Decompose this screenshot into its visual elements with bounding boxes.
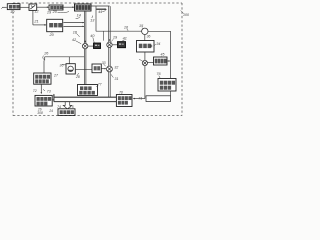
wire 20 lower out [63,25,84,27]
leader 100 [181,11,184,14]
pipe below valve 42 [83,49,85,85]
text in block 27 row1 [35,75,38,79]
block 12 [29,4,37,10]
block 19 [49,5,63,10]
right riser down to block 76 [170,31,172,78]
block 10 [7,4,20,10]
text in block 35 [139,44,143,48]
wire into block 27 [43,61,45,74]
wire valve to actuator 40 [88,45,94,47]
sense riser [95,6,97,31]
text in block 77 row2 [79,91,82,95]
symbol in block 12 [30,5,35,9]
actuator 40 (dark) [94,43,101,49]
arrow mark 44 [96,8,105,10]
block 76 [158,79,176,92]
sense line horizontal [96,30,142,32]
text in block 76 row1 [160,81,163,85]
text in block 20 [49,23,53,27]
pump box 36 [66,64,75,74]
valve circle-X under 35 [142,60,147,65]
svg-text:41: 41 [123,36,127,40]
svg-text:71: 71 [138,96,142,100]
valve 32 circle-X [107,66,113,72]
sense line to right riser [148,30,171,32]
pipe 13 vertical double line [83,11,85,44]
empty box 71 [146,96,171,102]
svg-text:36: 36 [147,34,151,38]
block 20 [47,19,63,31]
wire 12 to 19 [37,6,49,8]
block 14 (dense dark text) [75,4,92,11]
svg-text:36: 36 [60,63,64,67]
wire 36 to 33 [75,68,92,70]
bottom bus double line [54,96,117,98]
svg-text:34: 34 [156,42,160,46]
flow arrow pipe 16 [109,39,111,41]
wire valve to block 45 [148,61,154,63]
block 35 [137,41,155,53]
stub sensor to block 35 [144,35,146,41]
svg-text:308: 308 [37,111,43,115]
corner down [44,57,46,61]
wide arrow into block 75 [63,102,71,109]
text in block 10 [9,5,12,9]
text in block 76 row2 [160,86,163,90]
wire 35 down [144,52,146,60]
svg-text:20: 20 [52,10,58,14]
wire down to pump 36 [68,57,70,64]
dashed system boundary 100 [13,2,182,4]
wire valve down [144,66,146,99]
box 33 [92,64,101,73]
wire 33 to valve 32 [101,68,106,70]
text in block 73 row2 [37,102,40,106]
wire 76 down [170,91,172,96]
svg-text:20: 20 [49,33,55,37]
svg-text:31: 31 [115,77,119,81]
wire 45 to riser [167,60,170,62]
svg-text:28: 28 [75,75,80,79]
marks in box 33 [94,66,97,70]
svg-text:44: 44 [98,10,102,14]
svg-text:21: 21 [33,20,38,24]
svg-text:45: 45 [161,52,165,56]
wire 73 to bus [52,99,54,101]
svg-text:73: 73 [47,89,51,93]
dense text in block 14 [76,5,79,10]
branch down to valve 19 [102,31,104,40]
block 27 [34,73,51,84]
pipe below valve 32 [108,72,110,97]
bus left end stub [53,94,55,101]
block 77 [78,85,98,96]
text in block 19 [50,6,53,9]
pipe from block 14 right [91,5,110,7]
text in block 27 row2 [35,79,38,83]
pipe between valves [108,48,110,67]
wire input to box 10 [2,6,7,8]
pipe 16 vertical double line [108,6,110,42]
block 73 [35,95,52,106]
sensor 15 circle [142,28,148,34]
block 75 [58,109,75,116]
block 45 [154,57,168,65]
wire to block 20 [33,24,46,26]
valve 19 circle-X [107,42,112,47]
valve 42 circle-X [82,43,87,48]
svg-text:32: 32 [114,65,118,69]
text in block 77 row1 [80,86,83,90]
svg-text:77: 77 [98,83,102,87]
text in block 75 [60,110,63,114]
svg-text:26: 26 [43,52,49,56]
text in block 45 [155,59,158,64]
svg-text:100: 100 [183,13,189,17]
wire valve to actuator 41 [112,44,117,46]
wire 20 upper out [63,22,84,24]
svg-text:14: 14 [77,14,81,18]
wire into block 70 [133,98,145,100]
svg-text:72: 72 [33,89,37,93]
text in block 70 row1 [118,96,121,100]
text in block 70 row2 [118,101,121,105]
flow arrow pipe 13 [84,41,86,43]
wire horizontal y57 [45,56,85,58]
wire 12 down [32,10,34,25]
pump symbol [68,66,73,71]
actuator 41 (dark) [118,42,126,48]
wire 19 to 14 [63,6,74,8]
svg-text:24: 24 [48,109,53,113]
wire 10 to 12 [20,6,29,8]
text in block 73 row1 [37,97,40,101]
block 70 [116,95,132,107]
wire 27 to 73 [40,84,42,93]
tick left of valve [139,59,142,61]
